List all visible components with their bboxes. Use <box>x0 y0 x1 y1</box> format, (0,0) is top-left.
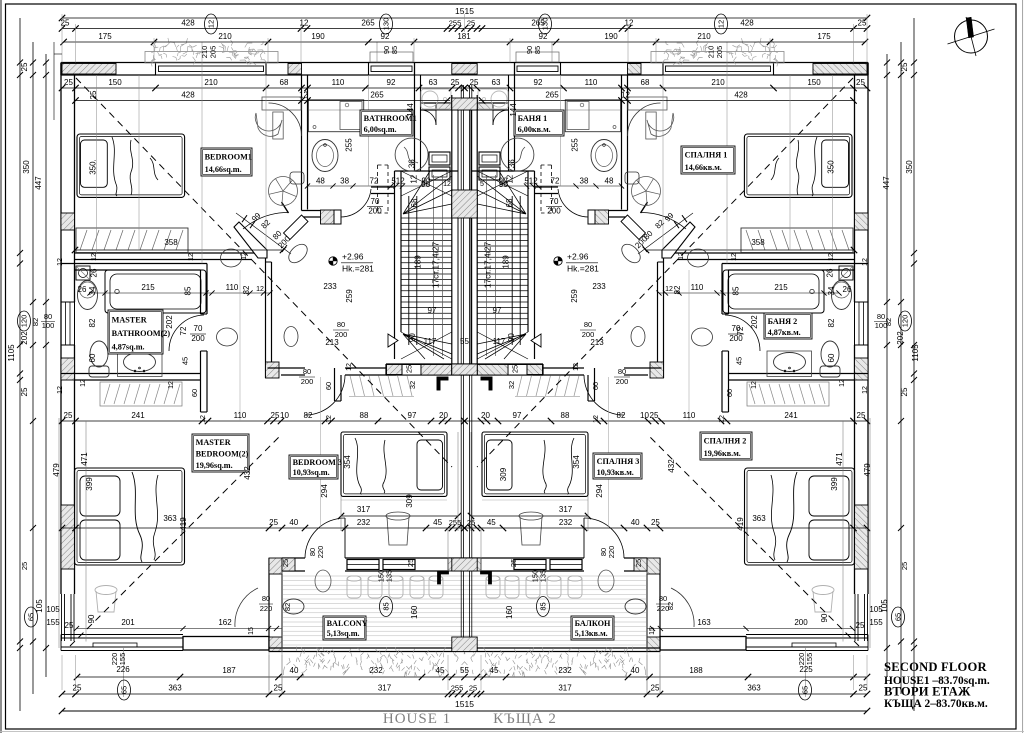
winder treads top <box>477 171 526 214</box>
svg-text:6,00sq.m.: 6,00sq.m. <box>364 125 397 134</box>
svg-text:80: 80 <box>303 367 311 376</box>
svg-text:220: 220 <box>260 604 273 613</box>
bedroom3 left wall stub <box>334 368 336 401</box>
svg-text:233: 233 <box>592 282 606 291</box>
svg-text:68: 68 <box>410 198 419 207</box>
svg-text:25: 25 <box>271 411 280 420</box>
spine wall hall/bedroom3 <box>268 367 306 369</box>
svg-text:259: 259 <box>345 289 354 303</box>
corner markers below slab <box>481 377 492 390</box>
spine wall hall/bedroom3 <box>624 367 662 369</box>
svg-text:12: 12 <box>188 253 195 261</box>
svg-text:354: 354 <box>343 455 352 469</box>
svg-text:12: 12 <box>200 415 207 423</box>
plant squiggles in planter <box>151 38 267 67</box>
radiator oval bedroom1 <box>221 249 242 267</box>
room label MASTER BEDROOM2 <box>192 434 249 472</box>
first steps below stair band <box>350 376 355 397</box>
wall bedroom3/balcony <box>624 557 647 559</box>
svg-text:210: 210 <box>711 78 725 87</box>
svg-text:358: 358 <box>751 238 765 247</box>
svg-text:BALCONY: BALCONY <box>327 619 368 628</box>
svg-text:399: 399 <box>830 477 839 491</box>
hall oval a <box>217 328 238 346</box>
svg-text:55: 55 <box>460 666 469 675</box>
svg-text:317: 317 <box>378 684 392 693</box>
bracket marks below balcony wall <box>481 571 492 584</box>
scan edge hairline left <box>0 0 2 733</box>
washer bathroom1 <box>565 100 620 132</box>
svg-text:88: 88 <box>561 411 570 420</box>
svg-text:10,93кв.м.: 10,93кв.м. <box>597 468 634 477</box>
svg-text:60: 60 <box>324 382 333 390</box>
svg-text:32: 32 <box>408 381 417 389</box>
svg-text:12: 12 <box>207 20 216 28</box>
plant squiggles in planter <box>662 38 778 67</box>
bathtub master bath <box>723 270 824 313</box>
svg-text:12: 12 <box>346 363 353 371</box>
svg-text:12: 12 <box>862 386 869 394</box>
right dim col lines <box>913 18 915 711</box>
closet bedroom1 <box>741 228 853 253</box>
window W2 small in top wall <box>369 63 415 76</box>
svg-text:HOUSE 1: HOUSE 1 <box>383 711 451 727</box>
sink master bath <box>118 351 163 377</box>
grass under balcony <box>283 647 466 677</box>
hall dim vline <box>688 270 690 421</box>
svg-text:226: 226 <box>116 665 130 674</box>
svg-text:255: 255 <box>449 19 462 28</box>
shower circle bathroom1 <box>395 138 428 171</box>
svg-text:120: 120 <box>901 315 910 328</box>
svg-text:105: 105 <box>46 605 60 614</box>
svg-text:105: 105 <box>35 599 44 613</box>
svg-text:26: 26 <box>90 268 99 277</box>
svg-text:ВТОРИ ЕТАЖ: ВТОРИ ЕТАЖ <box>884 685 971 699</box>
stair landing slab band <box>386 363 465 365</box>
master bedroom closet strip <box>747 382 829 406</box>
window in left wall (master bath) <box>61 302 75 345</box>
north arrow compass <box>955 20 988 53</box>
top exterior wall House1 <box>465 62 869 64</box>
svg-text:19,96sq.m.: 19,96sq.m. <box>196 461 233 470</box>
svg-text:12: 12 <box>80 379 87 387</box>
svg-text:215: 215 <box>774 283 788 292</box>
svg-text:25: 25 <box>469 684 477 693</box>
window W1 big in top wall <box>663 63 774 76</box>
chamfer door arc <box>243 213 288 230</box>
master bedroom balcony door arc <box>235 588 258 627</box>
dim row y421 <box>62 420 465 422</box>
bathtub master bath <box>105 270 206 313</box>
hatch left wall c <box>61 505 75 569</box>
master bathroom bottom wall <box>729 373 869 375</box>
svg-text:12: 12 <box>299 91 308 100</box>
entry recess rear wall <box>465 102 509 104</box>
svg-text:60: 60 <box>88 353 97 362</box>
svg-text:85: 85 <box>382 602 391 610</box>
svg-text:4,87sq.m.: 4,87sq.m. <box>112 343 145 352</box>
svg-text:85: 85 <box>533 46 542 54</box>
bathroom1 bottom wall right part <box>371 186 395 188</box>
svg-text:189: 189 <box>501 255 510 269</box>
svg-text:25: 25 <box>651 518 660 527</box>
svg-text:90: 90 <box>499 180 508 189</box>
dim row y628 <box>647 628 853 630</box>
balcony floor stripes <box>465 575 647 577</box>
svg-text:317: 317 <box>357 505 371 514</box>
svg-text:55: 55 <box>460 337 469 346</box>
dashed floor opening <box>377 165 379 213</box>
svg-text:80: 80 <box>262 594 270 603</box>
svg-text:447: 447 <box>34 176 43 190</box>
room label BANYA1 <box>514 110 564 136</box>
chamfer dim line <box>236 213 291 254</box>
window sill rect <box>792 643 836 647</box>
svg-text:85: 85 <box>183 286 192 295</box>
svg-text:25: 25 <box>73 684 82 693</box>
stair landing slab band <box>465 363 544 365</box>
svg-text:205: 205 <box>209 46 218 59</box>
svg-text:317: 317 <box>559 505 573 514</box>
svg-text:25: 25 <box>61 19 70 28</box>
svg-text:255: 255 <box>345 138 354 152</box>
balcony bottom edge <box>269 647 465 649</box>
svg-text:25: 25 <box>858 19 867 28</box>
svg-text:25: 25 <box>281 559 290 567</box>
svg-text:6,00кв.м.: 6,00кв.м. <box>518 125 551 134</box>
svg-text:1515: 1515 <box>455 6 474 16</box>
toilet master bath lower <box>821 341 839 367</box>
svg-text:25: 25 <box>20 387 29 396</box>
svg-text:СПАЛНЯ 1: СПАЛНЯ 1 <box>685 151 728 160</box>
svg-text:354: 354 <box>572 455 581 469</box>
stair direction cross top <box>477 171 528 196</box>
svg-text:110: 110 <box>226 283 239 292</box>
closet bedroom1 <box>76 228 188 253</box>
window sill rect <box>93 643 137 647</box>
svg-text:232: 232 <box>357 518 371 527</box>
svg-text:45: 45 <box>436 666 445 675</box>
svg-text:40: 40 <box>290 666 299 675</box>
grass under balcony <box>463 647 646 677</box>
svg-text:BATHROOM(2): BATHROOM(2) <box>112 329 171 338</box>
svg-text:25: 25 <box>509 559 518 567</box>
svg-text:25: 25 <box>64 411 73 420</box>
svg-text:97: 97 <box>493 306 502 315</box>
svg-text:82: 82 <box>673 285 682 294</box>
svg-text:200: 200 <box>335 330 348 339</box>
dim line 317 y516 <box>471 515 588 517</box>
chair bedroom1 <box>647 113 674 136</box>
svg-text:189: 189 <box>414 255 423 269</box>
svg-text:1515: 1515 <box>455 699 474 709</box>
svg-text:BEDROOM1: BEDROOM1 <box>205 153 252 162</box>
hatch left wall c <box>855 505 869 569</box>
hall oval a <box>692 328 713 346</box>
svg-text:25: 25 <box>859 684 868 693</box>
dim row y292 tub <box>659 292 839 294</box>
svg-text:40: 40 <box>631 518 640 527</box>
gray vanity ghost below <box>421 89 451 109</box>
dim line 358 y247 <box>646 249 854 251</box>
svg-text:63: 63 <box>429 78 438 87</box>
chamfer dim line <box>638 213 693 254</box>
svg-text:26: 26 <box>78 285 87 294</box>
entry recess side wall <box>514 63 516 172</box>
svg-text:130: 130 <box>541 18 550 31</box>
svg-text:188: 188 <box>689 666 703 675</box>
dim row bathroom1 y186 <box>308 185 431 187</box>
svg-text:10: 10 <box>640 411 649 420</box>
svg-text:220: 220 <box>316 546 325 559</box>
svg-text:90: 90 <box>421 180 430 189</box>
dashed diagonal master bedroom <box>70 436 280 646</box>
bottom wall solid part <box>183 637 269 651</box>
bottom wall solid part <box>660 637 746 651</box>
entry door arc <box>493 110 508 125</box>
svg-text:19,96кв.м.: 19,96кв.м. <box>704 449 741 458</box>
svg-text:85: 85 <box>732 286 741 295</box>
svg-text:200: 200 <box>547 207 561 216</box>
svg-text:117: 117 <box>493 337 506 346</box>
bathroom1 door arc <box>341 189 371 217</box>
svg-text:358: 358 <box>164 238 178 247</box>
svg-text:25: 25 <box>900 387 909 396</box>
master bathroom door arc <box>169 315 204 351</box>
svg-text:65: 65 <box>894 613 903 621</box>
svg-text:100: 100 <box>42 321 55 330</box>
svg-text:КЪЩА 2–83.70кв.м.: КЪЩА 2–83.70кв.м. <box>884 698 988 710</box>
svg-text:60: 60 <box>190 389 199 397</box>
window in left wall (master bath) <box>855 302 869 345</box>
bed master bedroom <box>75 468 185 565</box>
master bathroom door arc <box>725 315 760 351</box>
desk bedroom1 <box>628 97 667 110</box>
room label SPALNYA1 <box>681 146 735 174</box>
gray pot ghost master bedroom <box>95 586 117 595</box>
dim line row y97 <box>479 100 854 102</box>
pot plant bedroom3 <box>386 512 410 520</box>
svg-text:12: 12 <box>409 174 418 183</box>
svg-text:5: 5 <box>480 181 484 188</box>
svg-text:12: 12 <box>751 381 758 389</box>
svg-text:213: 213 <box>590 338 604 347</box>
svg-text:110: 110 <box>691 283 704 292</box>
svg-text:255: 255 <box>449 518 462 527</box>
dashed diagonal house1 main <box>477 78 853 467</box>
svg-text:5,13кв.м.: 5,13кв.м. <box>575 629 608 638</box>
bedroom1 bottom wall <box>75 252 259 254</box>
planter box above W1 <box>651 52 784 64</box>
svg-text:90: 90 <box>408 333 417 342</box>
svg-text:45: 45 <box>490 666 499 675</box>
extension lines <box>789 75 791 250</box>
room label BALKON <box>571 616 614 640</box>
svg-text:12: 12 <box>57 258 64 266</box>
svg-text:82: 82 <box>827 318 836 327</box>
master bathroom top wall <box>61 263 207 265</box>
svg-text:155: 155 <box>805 653 814 666</box>
top exterior wall House1 <box>61 62 465 64</box>
dimension labels <box>205 14 218 34</box>
svg-text:12: 12 <box>91 253 98 261</box>
svg-text:82: 82 <box>617 411 626 420</box>
svg-text:17ст.17,4/27: 17ст.17,4/27 <box>483 241 493 288</box>
room label BANYA2 <box>764 313 812 339</box>
svg-text:190: 190 <box>311 32 325 41</box>
svg-text:117: 117 <box>424 337 437 346</box>
master bedroom balcony door arc <box>671 588 694 627</box>
svg-text:25: 25 <box>64 78 73 87</box>
level mark left <box>329 257 337 265</box>
svg-text:163: 163 <box>697 618 711 627</box>
svg-text:10,93sq.m.: 10,93sq.m. <box>293 468 330 477</box>
svg-text:428: 428 <box>734 91 748 100</box>
svg-text:432: 432 <box>243 466 252 480</box>
svg-text:КЪЩА 2: КЪЩА 2 <box>493 711 557 727</box>
sink bathroom1 <box>312 140 338 172</box>
hatched wall segment top-mid <box>628 64 642 75</box>
svg-text:97: 97 <box>408 411 417 420</box>
balcony pillar bottom hatch <box>647 637 660 652</box>
svg-text:40: 40 <box>289 518 298 527</box>
sink master bath <box>767 351 812 377</box>
toilet master bath upper <box>78 281 98 310</box>
top dim tier3 <box>64 41 865 43</box>
svg-text:200: 200 <box>616 377 629 386</box>
svg-text:38: 38 <box>340 177 349 186</box>
svg-text:233: 233 <box>323 282 337 291</box>
svg-text:155: 155 <box>869 618 883 627</box>
svg-text:130: 130 <box>382 18 391 31</box>
svg-text:265: 265 <box>370 91 384 100</box>
svg-text:232: 232 <box>558 666 572 675</box>
svg-text:175: 175 <box>817 32 831 41</box>
bottom dim tier B4 1515 <box>62 710 867 712</box>
svg-text:479: 479 <box>863 463 872 477</box>
stair direction cross top <box>401 171 452 196</box>
svg-text:45: 45 <box>181 357 190 365</box>
room label BALCONY <box>323 616 366 640</box>
svg-text:12: 12 <box>828 253 835 261</box>
dim row y528 <box>62 527 465 529</box>
shower corner <box>839 266 853 280</box>
window W1 big in top wall <box>156 63 267 76</box>
svg-text:72: 72 <box>370 177 379 186</box>
svg-text:92: 92 <box>534 78 543 87</box>
balcony door arc <box>305 518 345 558</box>
svg-text:205: 205 <box>715 46 724 59</box>
svg-text:25: 25 <box>634 559 643 567</box>
svg-text:25: 25 <box>650 411 659 420</box>
hatch left wall a <box>61 213 75 230</box>
chamfer wall bathroom1 <box>621 215 646 240</box>
toilet master bath upper <box>832 281 852 310</box>
entry recess side wall <box>414 63 416 172</box>
bracket marks below balcony wall <box>438 571 449 584</box>
svg-text:25: 25 <box>467 19 475 28</box>
bathroom1 door arc <box>558 189 588 217</box>
bedroom3 left wall stub <box>594 368 596 401</box>
dim line row y97 <box>76 100 451 102</box>
svg-text:12: 12 <box>625 19 634 28</box>
svg-text:12: 12 <box>168 381 175 389</box>
svg-text:309: 309 <box>405 494 414 508</box>
svg-text:428: 428 <box>740 19 754 28</box>
svg-text:399: 399 <box>85 477 94 491</box>
level mark right <box>554 257 562 265</box>
svg-text:25: 25 <box>856 78 865 87</box>
svg-text:350: 350 <box>827 160 836 174</box>
svg-text:144: 144 <box>509 103 518 117</box>
svg-text:+2.96: +2.96 <box>342 252 364 262</box>
planter box above W1 <box>145 52 278 64</box>
svg-text:144: 144 <box>406 103 415 117</box>
svg-text:12: 12 <box>593 415 600 423</box>
first steps below stair band <box>574 376 579 397</box>
svg-text:309: 309 <box>499 467 508 481</box>
bedroom1 bottom wall <box>671 252 855 254</box>
svg-text:428: 428 <box>181 91 195 100</box>
bed bedroom1 <box>77 134 185 197</box>
scan edge hairline bottom <box>0 731 1024 733</box>
svg-text:25: 25 <box>405 365 414 373</box>
master bathroom top wall <box>722 263 868 265</box>
svg-text:82: 82 <box>88 318 97 327</box>
direction triangle <box>531 334 541 347</box>
room label BEDROOM 3 <box>289 455 338 479</box>
svg-text:BEDROOM 3: BEDROOM 3 <box>293 458 342 467</box>
svg-text:210: 210 <box>697 32 711 41</box>
svg-text:512: 512 <box>391 177 405 186</box>
svg-text:25: 25 <box>470 78 479 87</box>
fan plant <box>269 177 298 206</box>
bathroom1 bottom wall left part <box>302 210 322 212</box>
svg-text:150: 150 <box>807 78 821 87</box>
svg-text:265: 265 <box>361 19 375 28</box>
chamfer wall bedroom1 <box>662 222 695 258</box>
gray vanity ghost below <box>478 89 508 109</box>
svg-text:190: 190 <box>604 32 618 41</box>
bathroom1 left wall <box>301 75 303 211</box>
svg-text:14,66sq.m.: 14,66sq.m. <box>205 165 242 174</box>
svg-text:65: 65 <box>120 686 129 694</box>
radiator oval bedroom1 <box>688 249 709 267</box>
dim row y528 <box>465 527 868 529</box>
left small tier x54 <box>54 53 62 55</box>
svg-text:12: 12 <box>862 258 869 266</box>
svg-text:60: 60 <box>827 353 836 362</box>
svg-text:70: 70 <box>371 197 380 206</box>
svg-text:15: 15 <box>649 627 656 635</box>
svg-text:34: 34 <box>88 286 97 295</box>
svg-text:12: 12 <box>731 253 738 261</box>
svg-text:25: 25 <box>856 621 865 630</box>
svg-text:68: 68 <box>641 78 650 87</box>
toilet bathroom1 <box>290 172 304 184</box>
svg-text:СПАЛНЯ 2: СПАЛНЯ 2 <box>704 437 747 446</box>
room label SPALNYA2 <box>700 432 752 460</box>
svg-text:80: 80 <box>659 594 667 603</box>
master bathroom bottom wall <box>61 373 201 375</box>
hatch left wall a <box>855 213 869 230</box>
svg-text:СПАЛНЯ 3: СПАЛНЯ 3 <box>597 457 640 466</box>
hatch left wall b <box>61 358 75 380</box>
svg-text:155: 155 <box>46 618 60 627</box>
dim row bathroom1 y186 <box>499 185 622 187</box>
top wall center hatch <box>452 64 477 75</box>
